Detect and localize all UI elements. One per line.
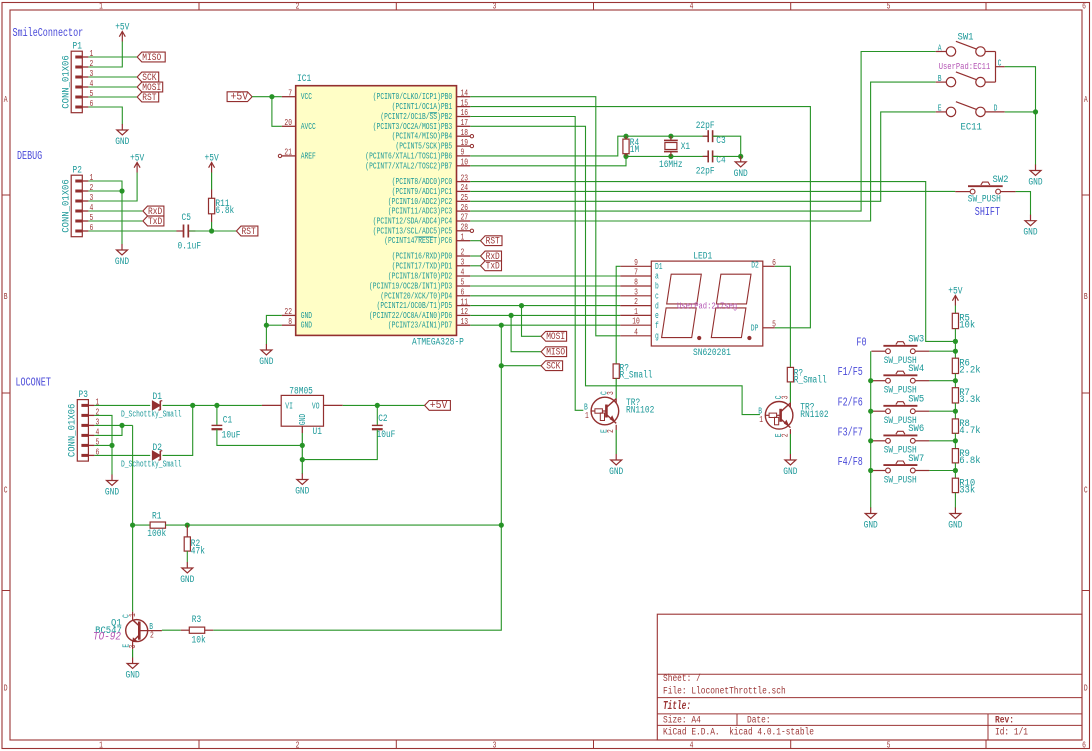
svg-text:E: E xyxy=(938,104,942,114)
title block frame xyxy=(657,614,1082,740)
ground keys xyxy=(864,508,878,532)
capacitor C2 xyxy=(372,425,383,429)
wire P1-4 to MOSI xyxy=(88,86,137,88)
wire SW4 right xyxy=(915,380,929,382)
label MOSI P1 xyxy=(137,82,163,94)
junction C4 GND xyxy=(738,154,743,159)
ground TR2 xyxy=(783,454,797,478)
svg-text:78M05: 78M05 xyxy=(289,387,313,398)
junction D xyxy=(1033,109,1038,114)
resistor R? left xyxy=(613,364,619,379)
resistor R8 xyxy=(952,419,958,433)
wire D to GND xyxy=(1035,112,1037,165)
junction C1 top xyxy=(214,403,219,408)
svg-text:+5V: +5V xyxy=(231,92,249,104)
wire C1 branch xyxy=(216,405,218,425)
svg-text:D1: D1 xyxy=(153,392,162,403)
wire PD0 stub xyxy=(470,255,480,257)
wire VO to +5V xyxy=(324,404,343,406)
LED1 DP dot 1 xyxy=(697,336,701,340)
svg-text:AVCC: AVCC xyxy=(301,122,317,132)
resistor R? right xyxy=(787,367,793,382)
svg-text:6: 6 xyxy=(90,223,94,233)
resistor R6 xyxy=(952,358,958,373)
svg-text:RN1102: RN1102 xyxy=(626,406,654,417)
+5V power P1 xyxy=(115,23,129,42)
svg-text:SW5: SW5 xyxy=(908,394,924,406)
TR? left pin names xyxy=(600,391,617,433)
svg-text:3: 3 xyxy=(493,2,497,12)
switch SW5 xyxy=(883,402,917,414)
wire xtal bottom row xyxy=(626,155,708,157)
svg-text:28: 28 xyxy=(461,223,469,233)
svg-text:A: A xyxy=(1084,95,1088,105)
wire xtal gnd xyxy=(740,156,742,157)
svg-text:SW4: SW4 xyxy=(908,363,924,375)
svg-text:F1/F5: F1/F5 xyxy=(838,365,863,379)
svg-text:2: 2 xyxy=(90,59,94,69)
svg-text:File: LloconetThrottle.sch: File: LloconetThrottle.sch xyxy=(663,685,786,697)
svg-text:(PCINT23/AIN1)PD7: (PCINT23/AIN1)PD7 xyxy=(388,321,452,331)
wire P3-1 to D1 xyxy=(94,404,150,406)
wire C4 right xyxy=(713,155,741,157)
svg-text:E: E xyxy=(774,434,784,438)
svg-text:1: 1 xyxy=(759,415,763,425)
resistor R4 leads xyxy=(625,136,627,139)
wire to SCK label xyxy=(501,365,541,367)
IC1 pin 17 PB3 xyxy=(373,118,471,132)
svg-text:Size: A4: Size: A4 xyxy=(663,714,701,726)
wire PD5 to segment d xyxy=(470,305,620,307)
encoder pin E xyxy=(936,111,947,113)
wire PD6 to segment e xyxy=(470,314,620,316)
resistor R4 xyxy=(623,139,629,154)
svg-text:10: 10 xyxy=(632,317,640,327)
connector P2 box xyxy=(71,175,82,237)
wire C1 to gnd rail xyxy=(217,429,302,445)
svg-text:5: 5 xyxy=(887,2,891,12)
wire to R1 xyxy=(133,524,151,526)
svg-text:19: 19 xyxy=(461,138,469,148)
svg-text:D_Schottky_Small: D_Schottky_Small xyxy=(121,410,182,420)
junction R2 top xyxy=(185,523,190,528)
crystal X1 xyxy=(664,136,678,156)
svg-text:(PCINT20/XCK/T0)PD4: (PCINT20/XCK/T0)PD4 xyxy=(380,291,452,301)
svg-text:(PCINT14/RESET)PC6: (PCINT14/RESET)PC6 xyxy=(384,236,452,246)
svg-text:RST: RST xyxy=(242,227,256,238)
IC1 pin 24 PC1 xyxy=(392,183,471,197)
svg-text:+5V: +5V xyxy=(430,400,448,412)
wire Q1 base red xyxy=(181,629,190,631)
wire P1-3 to SCK xyxy=(88,76,137,78)
power label +5V U1 xyxy=(425,400,451,412)
ground IC1 xyxy=(259,344,273,368)
IC1 pin 28 PC5 xyxy=(373,223,471,237)
connector P2 pins xyxy=(75,173,93,233)
IC1 pin 1 PC6 xyxy=(384,232,470,246)
svg-text:6: 6 xyxy=(96,448,100,458)
U1 gnd lead xyxy=(301,426,303,433)
IC1 pin 9 PB6 xyxy=(365,148,470,162)
wire ladder R10 xyxy=(954,463,956,478)
label TxD IC xyxy=(481,261,502,273)
wire ladder R9 xyxy=(954,433,956,448)
svg-text:Date:: Date: xyxy=(747,715,771,726)
ground R2 xyxy=(180,562,194,586)
junction X1 top xyxy=(668,134,673,139)
IC1 pin 10 PB7 xyxy=(365,158,470,172)
svg-text:DP: DP xyxy=(751,324,759,334)
svg-text:D1: D1 xyxy=(655,262,663,272)
wire PB6 to xtal top xyxy=(470,136,708,156)
svg-text:RST: RST xyxy=(142,93,156,104)
svg-text:d: d xyxy=(655,301,659,311)
resistor R10 xyxy=(952,478,958,492)
svg-text:GND: GND xyxy=(1028,178,1042,189)
label MOSI mid xyxy=(541,331,567,343)
wire loconet data down xyxy=(132,425,134,611)
svg-text:KiCad E.D.A. kicad 4.0.1-stab: KiCad E.D.A. kicad 4.0.1-stable xyxy=(663,727,814,739)
svg-text:1: 1 xyxy=(90,49,94,59)
svg-text:VI: VI xyxy=(285,402,293,412)
wire D1 to VI xyxy=(163,404,262,406)
ground P1 xyxy=(115,124,129,148)
svg-text:IC1: IC1 xyxy=(297,74,311,85)
svg-text:(PCINT12/SDA/ADC4)PC4: (PCINT12/SDA/ADC4)PC4 xyxy=(373,217,452,227)
svg-text:3.3k: 3.3k xyxy=(959,394,980,406)
svg-text:1: 1 xyxy=(99,2,103,12)
wire PD2 to segment a xyxy=(470,275,620,277)
wire PD4 to segment c xyxy=(470,295,620,297)
junction VCC AVCC xyxy=(269,94,274,99)
label RxD P2 xyxy=(143,206,164,218)
ground U1 xyxy=(295,474,309,498)
capacitor C3 xyxy=(708,130,712,142)
svg-text:100k: 100k xyxy=(147,528,166,540)
wire D stub xyxy=(1005,111,1036,113)
svg-text:23: 23 xyxy=(461,173,469,183)
svg-text:4: 4 xyxy=(690,2,694,12)
svg-text:4: 4 xyxy=(90,79,94,89)
junction U1 gnd C1 xyxy=(300,443,305,448)
svg-text:f: f xyxy=(655,321,659,331)
wire P3-3 xyxy=(94,424,132,426)
svg-text:4: 4 xyxy=(690,740,694,750)
junction ladder 411.2 xyxy=(953,409,958,414)
svg-text:13: 13 xyxy=(461,317,469,327)
svg-text:2: 2 xyxy=(634,297,638,307)
IC1 pin 3 PD1 xyxy=(392,258,471,272)
IC1 SS overbar xyxy=(430,112,438,114)
IC1 pin 18 PB4 xyxy=(392,128,471,142)
svg-text:(PCINT9/ADC1)PC1: (PCINT9/ADC1)PC1 xyxy=(392,187,453,197)
IC1 pin 22 GND xyxy=(282,307,312,321)
wire P1-2 to +5V xyxy=(88,42,122,68)
junction R4 top xyxy=(623,134,628,139)
switch SW6 xyxy=(883,431,917,443)
IC1 PB5 no-connect xyxy=(470,144,473,147)
wire PD7 down to R3 xyxy=(213,325,501,630)
wire R11 to +5V xyxy=(211,173,213,190)
encoder pin C xyxy=(996,66,1005,68)
svg-text:EC11: EC11 xyxy=(961,121,982,133)
ground crystal xyxy=(734,156,748,180)
svg-text:22pF: 22pF xyxy=(696,167,715,178)
IC1 pin 13 PD7 xyxy=(388,317,470,331)
svg-text:TO-92: TO-92 xyxy=(93,631,121,643)
svg-text:10k: 10k xyxy=(192,635,206,647)
IC1 PC5 no-connect xyxy=(470,229,473,232)
svg-text:CONN_01X06: CONN_01X06 xyxy=(60,179,72,233)
encoder pin B xyxy=(936,81,947,83)
svg-text:GND: GND xyxy=(115,137,129,148)
connector P1 box xyxy=(71,51,82,112)
wire C2 to gnd rail xyxy=(302,429,377,459)
svg-text:SW6: SW6 xyxy=(908,423,924,435)
junction P3-5 xyxy=(109,443,114,448)
wire R11 bottom xyxy=(211,214,213,222)
wire P3-6 to D2 xyxy=(94,454,150,456)
svg-text:(PCINT21/OC0B/T1)PD5: (PCINT21/OC0B/T1)PD5 xyxy=(377,301,453,311)
wire P1-1 to MISO xyxy=(88,56,137,58)
IC1 pin 20 AVCC xyxy=(282,118,317,132)
IC1 pin 8 GND xyxy=(282,317,312,331)
encoder switch A-C xyxy=(946,41,985,56)
encoder switch B-C xyxy=(946,72,985,87)
wire to AVCC xyxy=(272,97,282,127)
transistor Q1 xyxy=(126,620,162,643)
junction P3-34 xyxy=(119,423,124,428)
wire PB2 to TR1 base xyxy=(470,117,583,411)
svg-text:D: D xyxy=(4,683,8,693)
junction ladder 380.7 xyxy=(953,378,958,383)
encoder switch E-D xyxy=(946,102,985,117)
wire C to D xyxy=(1005,67,1036,112)
transistor TR? right xyxy=(765,402,793,430)
ground ladder xyxy=(948,508,962,532)
svg-text:D2: D2 xyxy=(153,443,162,454)
svg-text:Id: 1/1: Id: 1/1 xyxy=(995,727,1028,739)
wire ladder R7 xyxy=(954,374,956,388)
resistor R9 xyxy=(952,449,958,463)
svg-text:3: 3 xyxy=(90,69,94,79)
svg-text:D: D xyxy=(1084,683,1088,693)
svg-text:D_Schottky_Small: D_Schottky_Small xyxy=(121,460,182,470)
svg-text:4: 4 xyxy=(90,203,94,213)
svg-text:LOCONET: LOCONET xyxy=(16,375,51,389)
wire P2-2 xyxy=(88,190,122,192)
svg-text:R_Small: R_Small xyxy=(794,374,827,386)
svg-text:E: E xyxy=(600,429,610,433)
svg-text:2: 2 xyxy=(296,2,300,12)
svg-text:18: 18 xyxy=(461,128,469,138)
resistor R3 xyxy=(189,627,204,633)
svg-text:SW_PUSH: SW_PUSH xyxy=(884,475,917,486)
svg-text:C2: C2 xyxy=(378,414,387,425)
svg-text:1: 1 xyxy=(90,173,94,183)
wire D2 up to D1 xyxy=(163,405,193,455)
capacitor C1 xyxy=(212,425,223,429)
encoder common bar xyxy=(995,52,997,83)
wire R10 to GND xyxy=(954,493,956,508)
svg-text:C: C xyxy=(998,59,1002,69)
wire C5 to RST xyxy=(189,230,236,232)
svg-text:LED1: LED1 xyxy=(693,251,712,262)
junction ladder 351.2 xyxy=(953,349,958,354)
ground TR1 xyxy=(609,454,623,478)
IC1 pin 16 PB2 xyxy=(380,108,470,122)
svg-text:6: 6 xyxy=(1082,2,1086,12)
encoder B right lead xyxy=(985,81,995,83)
svg-text:GND: GND xyxy=(864,521,878,532)
svg-text:c: c xyxy=(655,292,659,302)
svg-text:B: B xyxy=(4,292,8,302)
svg-text:25: 25 xyxy=(461,193,469,203)
svg-text:C: C xyxy=(4,485,8,495)
svg-text:a: a xyxy=(655,272,659,282)
svg-text:B: B xyxy=(938,74,942,84)
svg-text:SW7: SW7 xyxy=(908,453,924,465)
junction SCK branch xyxy=(499,363,504,368)
wire PC4 to encoder B xyxy=(470,82,936,221)
svg-text:4.7k: 4.7k xyxy=(959,425,980,437)
svg-text:ATMEGA328-P: ATMEGA328-P xyxy=(412,338,464,349)
svg-text:DEBUG: DEBUG xyxy=(17,149,42,163)
svg-text:RN1102: RN1102 xyxy=(800,410,828,421)
Q1 collector wire xyxy=(132,612,134,620)
capacitor C5 xyxy=(183,225,185,238)
label MISO mid xyxy=(541,347,567,359)
svg-text:3: 3 xyxy=(493,740,497,750)
connector P3 pins xyxy=(81,398,99,458)
IC1 pin 12 PD6 xyxy=(369,307,470,321)
encoder A right lead xyxy=(985,51,995,53)
regulator U1 box xyxy=(281,395,323,426)
svg-text:(PCINT1/OC1A)PB1: (PCINT1/OC1A)PB1 xyxy=(392,102,453,112)
IC1 pin 15 PB1 xyxy=(392,98,471,112)
svg-text:17: 17 xyxy=(461,118,469,128)
wire P2-5 to TxD xyxy=(88,220,142,222)
wire P1-6 to GND xyxy=(88,107,122,125)
svg-text:6: 6 xyxy=(90,99,94,109)
wire R3 right xyxy=(205,629,214,631)
svg-text:22pF: 22pF xyxy=(696,121,715,132)
resistor R11 xyxy=(209,198,215,214)
wire P2-1 down to GND xyxy=(88,181,122,245)
svg-text:C4: C4 xyxy=(716,156,725,167)
svg-text:1: 1 xyxy=(461,232,465,242)
wire C3 right xyxy=(713,136,741,156)
svg-text:(PCINT11/ADC3)PC3: (PCINT11/ADC3)PC3 xyxy=(388,207,452,217)
svg-text:5: 5 xyxy=(90,89,94,99)
IC1 pin 5 PD3 xyxy=(369,278,470,292)
wire PC2 to encoder E xyxy=(470,112,936,201)
connector P1 pins xyxy=(75,49,93,109)
svg-text:3: 3 xyxy=(461,258,465,268)
svg-text:21: 21 xyxy=(284,148,292,158)
svg-text:20: 20 xyxy=(284,118,292,128)
svg-text:GND: GND xyxy=(295,487,309,498)
ground SW2 xyxy=(1023,215,1037,239)
wire P2-4 to RxD xyxy=(88,210,142,212)
label RST P1 xyxy=(137,92,159,104)
svg-text:A: A xyxy=(4,95,8,105)
wire R7s to TR2 xyxy=(789,382,791,403)
svg-text:CONN_01X06: CONN_01X06 xyxy=(60,55,72,109)
svg-text:47k: 47k xyxy=(191,545,205,557)
C3 pin stubs xyxy=(703,135,708,137)
wire R5 to node xyxy=(954,329,956,342)
label TxD P2 xyxy=(143,216,164,228)
svg-text:GND: GND xyxy=(259,357,273,368)
junction C2 top xyxy=(375,403,380,408)
svg-text:3: 3 xyxy=(634,287,638,297)
svg-text:GND: GND xyxy=(1023,228,1037,239)
junction U1 gnd C2 xyxy=(300,457,305,462)
wire PC6 stub xyxy=(470,240,480,242)
wire SW3 right xyxy=(915,350,929,352)
svg-text:14: 14 xyxy=(461,88,469,98)
svg-text:MISO: MISO xyxy=(142,53,161,64)
svg-text:SmileConnector: SmileConnector xyxy=(13,26,84,40)
svg-text:6.8k: 6.8k xyxy=(959,455,980,467)
svg-text:6.8k: 6.8k xyxy=(215,205,234,217)
wire P3-34 link xyxy=(94,425,122,435)
svg-text:6: 6 xyxy=(1082,740,1086,750)
junction IC GND xyxy=(264,323,269,328)
encoder pin A xyxy=(936,51,947,53)
wire R1 to net xyxy=(166,524,502,526)
svg-text:3: 3 xyxy=(90,193,94,203)
SW2 left lead xyxy=(955,191,970,193)
LED1 digit 1 outline xyxy=(667,274,702,304)
svg-text:5: 5 xyxy=(461,278,465,288)
label RST IC xyxy=(481,236,503,248)
wire ladder R8 xyxy=(954,403,956,419)
capacitor C4 xyxy=(708,150,712,162)
svg-text:g: g xyxy=(655,332,659,342)
svg-text:24: 24 xyxy=(461,183,469,193)
junction key SW7 xyxy=(868,468,873,473)
svg-text:5: 5 xyxy=(887,740,891,750)
wire P1-5 to RST xyxy=(88,96,137,98)
svg-text:+5V: +5V xyxy=(115,23,129,34)
svg-text:TxD: TxD xyxy=(148,217,162,228)
svg-text:1: 1 xyxy=(99,740,103,750)
svg-text:GND: GND xyxy=(783,467,797,478)
svg-text:MISO: MISO xyxy=(546,348,565,359)
LED1 right pins xyxy=(751,258,776,334)
junction C5 R11 xyxy=(209,228,214,233)
switch SW7 xyxy=(883,461,917,473)
ground Q1 xyxy=(126,658,140,682)
wire to MISO label xyxy=(511,315,541,351)
svg-text:10uF: 10uF xyxy=(377,430,396,441)
svg-text:C: C xyxy=(1084,485,1088,495)
encoder pin D xyxy=(985,111,1005,113)
svg-text:1: 1 xyxy=(585,411,589,421)
svg-text:GND: GND xyxy=(948,521,962,532)
svg-text:CONN_01X06: CONN_01X06 xyxy=(66,404,78,458)
svg-text:(PCINT18/INT0)PD2: (PCINT18/INT0)PD2 xyxy=(388,272,452,282)
svg-text:F4/F8: F4/F8 xyxy=(838,455,863,469)
svg-text:GND: GND xyxy=(180,575,194,586)
wire SW2 to GND xyxy=(1016,192,1031,216)
svg-text:+5V: +5V xyxy=(948,287,962,298)
svg-text:SHIFT: SHIFT xyxy=(975,205,1000,219)
svg-text:(PCINT22/OC0A/AIN0)PD6: (PCINT22/OC0A/AIN0)PD6 xyxy=(369,311,452,321)
svg-text:C5: C5 xyxy=(182,213,191,224)
